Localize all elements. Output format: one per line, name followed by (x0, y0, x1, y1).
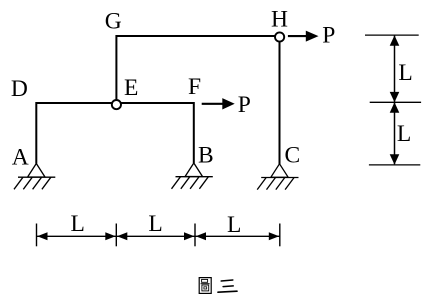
bottom dimension arrowheads (37, 232, 279, 240)
caption character 三 (hand-drawn strokes) (218, 280, 237, 292)
svg-text:P: P (322, 23, 335, 49)
svg-text:H: H (271, 7, 288, 33)
hinge H (circle) (275, 32, 284, 41)
svg-text:L: L (227, 212, 241, 238)
svg-text:L: L (148, 211, 162, 237)
svg-text:C: C (284, 143, 300, 169)
svg-text:A: A (12, 144, 29, 170)
force arrow P at H (288, 31, 319, 42)
svg-text:L: L (71, 211, 85, 237)
hinge E (circle) (112, 100, 121, 109)
svg-text:L: L (397, 121, 411, 147)
support B (172, 163, 213, 189)
svg-text:F: F (188, 74, 201, 100)
svg-text:G: G (105, 8, 122, 34)
wire frame E-G column, G-H beam, H-C column (116, 36, 279, 164)
svg-text:D: D (11, 76, 28, 102)
wire frame D-A, D-E-F beam, F-B column (36, 103, 194, 164)
svg-text:L: L (398, 60, 412, 86)
right dimension lines (365, 35, 421, 165)
svg-text:P: P (238, 92, 251, 118)
support A (14, 164, 55, 190)
svg-text:B: B (198, 143, 214, 169)
support C (257, 164, 298, 190)
caption character 圖 (hand-drawn strokes) (199, 278, 211, 294)
force arrow P at F (202, 98, 235, 109)
bottom dimension line (37, 224, 280, 247)
right dimension arrowheads (390, 35, 400, 164)
svg-text:E: E (124, 75, 138, 101)
